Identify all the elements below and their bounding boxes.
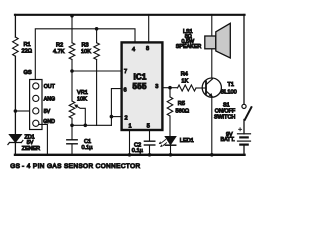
node junction pin1 ground bbox=[128, 153, 132, 157]
svg-text:R5: R5 bbox=[178, 101, 185, 107]
wire R3 column bbox=[96, 29, 98, 126]
svg-text:GS: GS bbox=[10, 163, 20, 170]
speaker LS1 bbox=[176, 23, 231, 58]
svg-text:7: 7 bbox=[124, 69, 127, 75]
node junction R5 top bbox=[168, 86, 172, 90]
svg-text:R1: R1 bbox=[24, 42, 31, 48]
svg-text:T1: T1 bbox=[228, 82, 235, 88]
svg-text:SWITCH: SWITCH bbox=[214, 115, 235, 121]
node junction emitter ground bbox=[210, 153, 214, 157]
wire collector to speaker bbox=[211, 49, 213, 78]
svg-text:LED1: LED1 bbox=[180, 138, 194, 144]
wire bottom ground rail bbox=[15, 154, 245, 156]
wire left rail upper segment bbox=[14, 15, 16, 38]
resistor R2 bbox=[69, 43, 75, 60]
svg-text:VR1: VR1 bbox=[77, 90, 88, 96]
svg-text:10K: 10K bbox=[77, 96, 87, 102]
wire emitter to ground bbox=[211, 97, 213, 155]
resistor R1 bbox=[13, 37, 19, 56]
capacitor C1 bbox=[67, 125, 93, 155]
svg-text:OUT: OUT bbox=[44, 84, 56, 90]
wire speaker top feed bbox=[211, 15, 213, 37]
capacitor C2 bbox=[132, 131, 155, 155]
svg-text:R4: R4 bbox=[181, 71, 188, 77]
svg-text:2: 2 bbox=[125, 115, 128, 121]
svg-text:SPEAKER: SPEAKER bbox=[176, 44, 202, 50]
svg-text:5V: 5V bbox=[44, 109, 51, 115]
LED LED1 bbox=[159, 137, 194, 148]
resistor R5 bbox=[167, 97, 173, 116]
wire R5 to LED1 bbox=[169, 116, 171, 137]
svg-text:R2: R2 bbox=[56, 43, 63, 49]
wire GND pin to ground rail bbox=[39, 124, 47, 154]
svg-text:1K: 1K bbox=[181, 79, 188, 85]
wire LED1 to ground bbox=[170, 145, 172, 154]
switch S1 bbox=[214, 103, 251, 121]
svg-text:10K: 10K bbox=[81, 49, 91, 55]
node junction C1 top bbox=[70, 124, 74, 128]
wire R5 upper lead bbox=[169, 88, 171, 97]
node junction left rail to 5V pin bbox=[14, 109, 18, 113]
node junction VR1 wiper bottom bbox=[84, 124, 88, 128]
wire right rail upper segment bbox=[243, 15, 245, 105]
svg-text:IC1: IC1 bbox=[134, 72, 147, 81]
svg-text:4.7K: 4.7K bbox=[53, 49, 65, 55]
svg-text:22Ω: 22Ω bbox=[22, 49, 32, 55]
wire inner 5V line to pin 4 bbox=[35, 29, 135, 80]
battery 9V BATT bbox=[221, 128, 251, 145]
node junction R2 top rail bbox=[70, 14, 74, 18]
resistor R3 bbox=[94, 43, 100, 60]
transistor T1 bbox=[202, 78, 236, 97]
wire right rail switch-to-battery bbox=[243, 120, 245, 134]
connector GS 4-pin bbox=[24, 70, 56, 130]
svg-text:3: 3 bbox=[155, 84, 158, 90]
wire R2 to VR1 bbox=[71, 60, 73, 102]
node junction LED ground bbox=[169, 153, 173, 157]
svg-text:0.1µ: 0.1µ bbox=[132, 148, 144, 154]
svg-text:5: 5 bbox=[147, 124, 150, 130]
svg-text:8: 8 bbox=[146, 46, 149, 52]
wire left rail bottom segment bbox=[14, 142, 16, 155]
wire pin 8 to rail bbox=[148, 15, 150, 42]
svg-text:BATT.: BATT. bbox=[221, 137, 235, 143]
node junction pin7 branch bbox=[70, 69, 74, 73]
svg-text:1: 1 bbox=[129, 124, 132, 130]
wire VR1 bottom to C1 node bbox=[71, 118, 73, 125]
wire pin 7 bbox=[72, 70, 121, 72]
wire left rail middle segment bbox=[14, 56, 16, 134]
svg-text:R3: R3 bbox=[82, 43, 89, 49]
potentiometer VR1 bbox=[69, 90, 88, 125]
wire R2 column top bbox=[71, 15, 73, 43]
zener diode ZD1 bbox=[8, 134, 40, 152]
svg-text:ZENER: ZENER bbox=[22, 146, 40, 152]
resistor R4 bbox=[178, 85, 197, 91]
node junction R3 top bbox=[95, 27, 99, 31]
wire trigger line to pin2 riser bbox=[72, 124, 111, 126]
svg-text:SL100: SL100 bbox=[221, 89, 237, 95]
wire pin 1 to ground bbox=[129, 131, 131, 155]
wire right rail bottom segment bbox=[243, 145, 245, 155]
svg-text:6: 6 bbox=[124, 88, 127, 94]
wire base lead bbox=[196, 87, 205, 89]
svg-text:560Ω: 560Ω bbox=[176, 108, 190, 114]
svg-text:4: 4 bbox=[132, 47, 135, 53]
node junction pin2 bbox=[110, 115, 114, 119]
op-amp timer IC1 555 bbox=[122, 42, 163, 130]
svg-text:ANG: ANG bbox=[44, 97, 55, 103]
node junction C2 ground bbox=[148, 153, 152, 157]
svg-text:- 4 PIN GAS SENSOR CONNECTOR: - 4 PIN GAS SENSOR CONNECTOR bbox=[22, 163, 141, 170]
svg-text:555: 555 bbox=[133, 82, 147, 91]
wire pin6-pin2 riser bbox=[111, 89, 120, 126]
wire 5V pin feed bbox=[15, 110, 29, 112]
wire pin 3 output bbox=[164, 87, 178, 89]
svg-text:0.1µ: 0.1µ bbox=[82, 145, 94, 151]
wire pin 2 bbox=[111, 116, 120, 118]
svg-text:GS: GS bbox=[24, 70, 32, 76]
wire top supply rail bbox=[15, 14, 245, 16]
